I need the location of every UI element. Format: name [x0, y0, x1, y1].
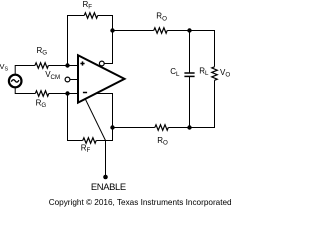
- wire: RO top to top-right corner: [167, 31, 214, 67]
- node: CL bottom junction: [187, 125, 191, 129]
- resistor RF (bottom): [83, 138, 97, 144]
- wire: CL bottom lead: [189, 76, 191, 127]
- wire: RF top loop right vertical down to output node: [98, 16, 113, 64]
- wire: RF bottom loop bottom-left segment: [67, 140, 83, 142]
- wire: RL bottom lead to bottom-right corner: [190, 80, 215, 127]
- pin label +: [80, 61, 84, 65]
- wire: RG bottom to op-amp - input: [49, 93, 78, 95]
- wire: inverted output stub up to top junction: [104, 31, 112, 64]
- source VS: [9, 75, 22, 88]
- node: CL top junction: [187, 28, 191, 32]
- svg-text:ENABLE: ENABLE: [91, 181, 126, 192]
- wire: CL top lead: [189, 31, 191, 74]
- resistor RG (bottom): [35, 91, 49, 97]
- output bubble on op-amp top edge: [99, 61, 104, 66]
- wire: enable diagonal from op-amp bottom edge: [85, 99, 105, 141]
- wire: RF top loop top-left segment: [67, 15, 84, 17]
- op-amp U1 (fully differential amplifier): [78, 55, 125, 102]
- wire: non-inverted output stub down to bottom junction: [96, 94, 113, 141]
- resistor RL (vertical): [212, 67, 218, 81]
- resistor RF (top): [84, 13, 98, 19]
- pin label -: [83, 92, 87, 94]
- wire: enable vertical drop: [105, 141, 107, 176]
- terminal ENABLE (dot): [103, 175, 108, 180]
- wire: top junction to RO top: [113, 30, 154, 32]
- wire: bottom junction to RO bottom: [113, 127, 155, 129]
- resistor RO (top): [154, 28, 168, 34]
- wire: RF top loop left vertical: [67, 16, 69, 66]
- wire: VS top lead to RG top: [15, 66, 35, 75]
- node: bottom output junction: [110, 125, 114, 129]
- wire: VS bottom lead to RG bottom: [15, 88, 35, 94]
- wire: RF bottom loop bottom-right segment: [96, 140, 113, 142]
- node: - input junction: [65, 91, 69, 95]
- wire: RO bottom to CL bottom junction: [168, 127, 189, 129]
- resistor RO (bottom): [155, 125, 169, 131]
- wire: RF bottom loop left vertical: [67, 94, 69, 141]
- resistor RG (top): [35, 63, 49, 69]
- wire: RG top to op-amp + input: [48, 65, 78, 67]
- capacitor CL: [184, 73, 194, 76]
- node: + input junction: [65, 63, 69, 67]
- wire: VCM stub to op-amp: [70, 79, 78, 81]
- node: top output junction: [110, 28, 114, 32]
- terminal VCM (open circle): [65, 77, 70, 82]
- svg-text:Copyright © 2016, Texas Instru: Copyright © 2016, Texas Instruments Inco…: [49, 198, 232, 207]
